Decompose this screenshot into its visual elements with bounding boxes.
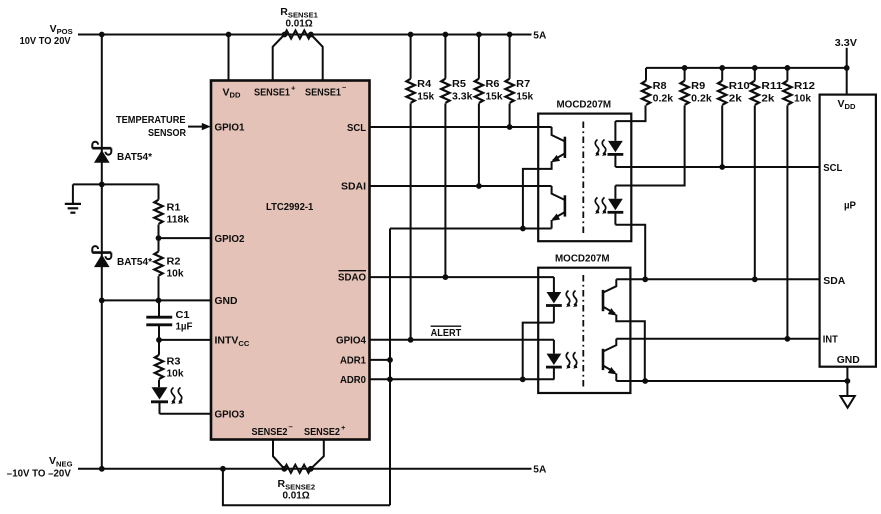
svg-text:MOCD207M: MOCD207M xyxy=(557,98,612,110)
svg-text:1µF: 1µF xyxy=(176,320,194,332)
svg-text:0.2k: 0.2k xyxy=(691,93,712,105)
svg-text:ALERT: ALERT xyxy=(431,327,462,339)
wire SDA from U3 to uP xyxy=(616,278,819,280)
wire top VPOS rail xyxy=(78,34,532,36)
wire SENSE2- lead xyxy=(273,440,284,469)
transistor Q2 lower of U2 xyxy=(551,186,565,229)
svg-text:15k: 15k xyxy=(486,91,503,103)
resistor R9 xyxy=(680,68,688,105)
svg-text:SENSE1: SENSE1 xyxy=(254,86,290,98)
resistor R1 xyxy=(154,184,162,238)
resistor R6 xyxy=(475,35,483,187)
wire U2 lower LED anode from R9 xyxy=(615,105,684,185)
svg-text:BAT54*: BAT54* xyxy=(117,151,153,163)
svg-text:–: – xyxy=(289,422,293,431)
svg-text:10k: 10k xyxy=(167,368,184,380)
svg-text:10k: 10k xyxy=(794,93,811,105)
wire SDAO from U1 to opto U3 xyxy=(370,276,554,278)
svg-text:15k: 15k xyxy=(417,91,434,103)
transistor Q4 lower of U3 xyxy=(603,339,617,381)
wire bottom VNEG rail xyxy=(78,468,532,470)
optocoupler U2 isolation dashed line xyxy=(582,122,584,234)
svg-text:SCL: SCL xyxy=(823,162,843,174)
resistor RSENSE2 xyxy=(284,465,310,473)
ground (earth) symbol xyxy=(65,184,81,212)
LED lower of U2 xyxy=(608,186,624,225)
LED upper of U2 xyxy=(608,121,624,167)
svg-text:SDAI: SDAI xyxy=(341,181,366,193)
resistor R2 xyxy=(154,238,162,300)
svg-text:118k: 118k xyxy=(167,213,190,225)
svg-text:MOCD207M: MOCD207M xyxy=(555,252,610,264)
wire logic ground rail xyxy=(616,380,847,382)
resistor R5 xyxy=(441,35,449,278)
svg-text:SDAO: SDAO xyxy=(338,272,366,284)
svg-text:–: – xyxy=(342,83,346,92)
LED upper of U3 xyxy=(546,277,562,323)
svg-text:+: + xyxy=(341,423,346,432)
wire SENSE1+ lead xyxy=(273,35,285,81)
svg-text:ADR0: ADR0 xyxy=(340,374,366,386)
svg-text:15k: 15k xyxy=(516,91,533,103)
svg-text:µP: µP xyxy=(844,199,856,211)
svg-text:–10V TO –20V: –10V TO –20V xyxy=(7,469,71,480)
resistor RSENSE1 xyxy=(285,30,311,38)
svg-text:SENSOR: SENSOR xyxy=(148,127,186,139)
svg-text:TEMPERATURE: TEMPERATURE xyxy=(116,114,186,126)
optocoupler U3 MOCD207M box xyxy=(538,268,630,393)
LED lower of U2 light arrows xyxy=(595,197,607,213)
svg-text:GPIO2: GPIO2 xyxy=(215,233,245,245)
resistor R4 xyxy=(406,35,414,340)
resistor R3 xyxy=(155,340,163,387)
svg-text:3.3k: 3.3k xyxy=(452,91,473,103)
capacitor C1 xyxy=(146,300,172,340)
diode BAT54* D1 (schottky) xyxy=(92,142,111,163)
svg-text:GPIO3: GPIO3 xyxy=(215,409,245,421)
wire uP GND drop xyxy=(846,367,848,396)
wire temperature sensor arrow into GPIO1 xyxy=(188,126,204,128)
wire U2 upper LED cathode to uP SCL xyxy=(615,166,819,168)
node junction wire at BAT54 cathode tap xyxy=(73,183,159,185)
svg-text:GPIO4: GPIO4 xyxy=(336,335,366,347)
svg-text:VDD: VDD xyxy=(838,98,856,111)
resistor R7 xyxy=(505,35,513,128)
wire GPIO4/ALERT from U1 to opto U3 xyxy=(370,339,554,341)
svg-text:ADR1: ADR1 xyxy=(340,355,366,367)
wire VNEG-to-ADR loop xyxy=(223,469,390,505)
svg-text:SCL: SCL xyxy=(347,122,367,134)
node junction dots xyxy=(99,32,850,472)
svg-text:GPIO1: GPIO1 xyxy=(215,122,245,134)
svg-text:2k: 2k xyxy=(729,93,742,105)
svg-text:SDA: SDA xyxy=(823,275,845,287)
svg-text:0.2k: 0.2k xyxy=(653,93,674,105)
svg-text:GND: GND xyxy=(215,295,238,307)
wire ADR1 stub xyxy=(370,359,391,361)
svg-text:VNEG: VNEG xyxy=(49,455,73,468)
svg-text:R3: R3 xyxy=(167,356,181,368)
svg-text:3.3V: 3.3V xyxy=(835,37,857,49)
svg-text:SENSE2: SENSE2 xyxy=(304,426,340,438)
wire INT from U3 to uP xyxy=(616,338,819,340)
wire 3.3V stub xyxy=(846,48,848,95)
svg-text:BAT54*: BAT54* xyxy=(117,256,153,268)
LED lower of U3 xyxy=(546,340,562,380)
svg-text:R2: R2 xyxy=(167,256,181,268)
LED upper of U2 light arrows xyxy=(595,140,607,156)
optocoupler U3 isolation dashed line xyxy=(582,275,584,387)
wire GPIO3 to U1 xyxy=(160,413,212,415)
microprocessor U4 box xyxy=(820,95,876,367)
wire GND row to U1 xyxy=(102,299,211,301)
svg-text:0.01Ω: 0.01Ω xyxy=(283,490,310,502)
svg-text:10k: 10k xyxy=(167,268,184,280)
resistor R12 xyxy=(783,68,791,339)
op-amp U1 LTC2992-1 body xyxy=(211,81,370,440)
svg-text:R1: R1 xyxy=(167,201,181,213)
wire SCL from U1 to opto U2 xyxy=(370,126,552,128)
diode BAT54* D2 (schottky) xyxy=(92,246,111,267)
optocoupler U2 MOCD207M box xyxy=(538,114,631,242)
svg-text:INT: INT xyxy=(823,334,839,346)
resistor R11 xyxy=(751,68,759,279)
svg-text:SENSE2: SENSE2 xyxy=(252,426,288,438)
LED D3 at GPIO3 xyxy=(151,387,168,414)
svg-text:C1: C1 xyxy=(176,309,190,321)
wire ADR vertical bus x=390 xyxy=(389,229,391,506)
svg-text:R12: R12 xyxy=(794,80,815,92)
wire U2 upper LED anode from R8 xyxy=(615,105,645,121)
svg-text:LTC2992-1: LTC2992-1 xyxy=(266,201,313,213)
svg-text:5A: 5A xyxy=(533,464,546,476)
wire U3 upper LED cathode to VNEG bus xyxy=(523,323,554,380)
svg-text:R5: R5 xyxy=(452,78,466,90)
wire U2 lower LED cathode to uP SDA xyxy=(615,225,645,280)
LED D3 light arrows xyxy=(171,388,183,404)
resistor R8 xyxy=(642,68,650,105)
LED lower of U3 light arrows xyxy=(566,352,578,368)
svg-text:5A: 5A xyxy=(533,29,546,41)
svg-text:0.01Ω: 0.01Ω xyxy=(286,18,313,30)
wire INTVCC row to U1 xyxy=(159,339,211,341)
svg-text:R11: R11 xyxy=(761,80,782,92)
svg-text:10V TO 20V: 10V TO 20V xyxy=(20,36,71,47)
wire GPIO2 to U1 xyxy=(159,237,212,239)
wire VDD pin drop xyxy=(228,35,230,81)
wire SDAI from U1 to opto U2 xyxy=(370,185,552,187)
svg-text:VPOS: VPOS xyxy=(50,23,73,36)
svg-text:SENSE1: SENSE1 xyxy=(305,86,341,98)
ground (logic) triangle symbol xyxy=(840,396,854,408)
wire SENSE2+ lead xyxy=(311,440,324,469)
wire opto U2 emitter return xyxy=(390,228,552,230)
LED upper of U3 light arrows xyxy=(566,291,578,307)
wire SENSE1- lead xyxy=(311,35,323,81)
svg-text:R9: R9 xyxy=(691,80,705,92)
transistor Q1 upper of U2 xyxy=(523,127,565,229)
svg-text:GND: GND xyxy=(837,354,860,366)
svg-text:R10: R10 xyxy=(729,80,750,92)
wire left vertical from VPOS to VNEG xyxy=(101,35,103,469)
wire ADR0 rail (VNEG side) xyxy=(370,378,555,380)
svg-text:R4: R4 xyxy=(417,78,431,90)
svg-text:+: + xyxy=(291,84,296,93)
transistor Q3 upper of U3 xyxy=(603,279,645,381)
svg-text:R6: R6 xyxy=(486,78,500,90)
svg-text:R7: R7 xyxy=(516,78,530,90)
svg-text:R8: R8 xyxy=(653,80,667,92)
svg-text:2k: 2k xyxy=(761,93,774,105)
wire 3.3V rail xyxy=(646,67,847,69)
resistor R10 xyxy=(718,68,726,167)
